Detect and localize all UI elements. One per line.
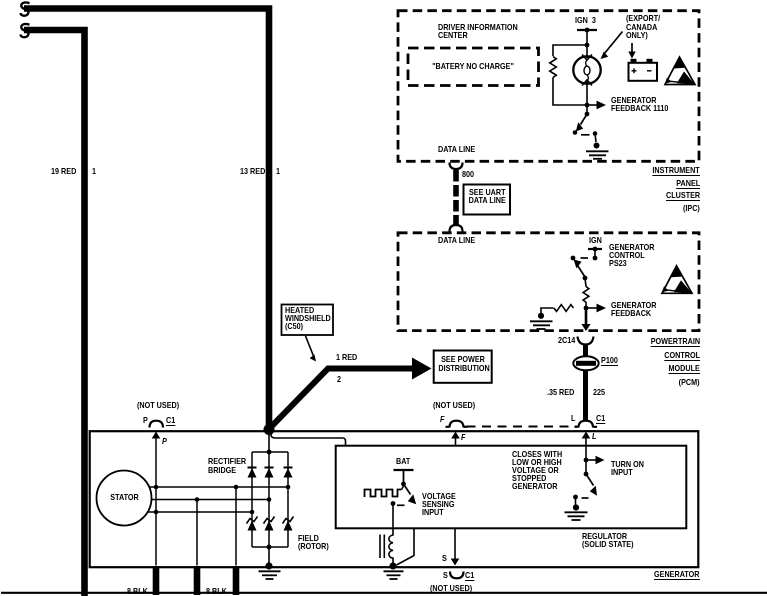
switch blade (regulator L) xyxy=(586,474,594,486)
ground (field) on generator case xyxy=(389,562,396,569)
label stator xyxy=(101,493,148,502)
8 BLK wire (phase A) below generator xyxy=(233,566,240,595)
label see uart data line xyxy=(467,188,507,197)
label 8 BLK (left) xyxy=(127,587,148,596)
wire resistor to ground (PCM) xyxy=(541,308,554,313)
8 BLK wire (phase C) below generator xyxy=(153,566,160,595)
stator phase wire C xyxy=(148,511,252,513)
field (rotor) core bars xyxy=(380,535,384,559)
arrow to GENERATOR FEEDBACK label (PCM) xyxy=(586,307,597,309)
wire contact down to field coil xyxy=(392,504,394,529)
arrowhead to SEE POWER DISTRIBUTION xyxy=(412,358,432,380)
wire junction down to rectifier bridge xyxy=(268,431,270,452)
label batery no charge xyxy=(418,62,529,71)
wire break hook (top wire 2) xyxy=(21,24,30,37)
resistor (lamp shunt) xyxy=(550,57,557,78)
node P tap on phase A xyxy=(154,485,159,490)
see power distribution box xyxy=(434,351,492,383)
diode (bridge negative, leg1) xyxy=(247,517,258,524)
8 BLK wire (phase B) below generator xyxy=(194,566,201,595)
label driver information center xyxy=(438,23,518,32)
field return wire xyxy=(397,528,415,566)
label (not used) F xyxy=(433,401,475,410)
IGN terminal bar (PCM) xyxy=(588,248,602,250)
ESD sensitive symbol (IPC) xyxy=(665,57,695,85)
label data line (IPC) xyxy=(438,145,475,154)
switch node (regulator L) xyxy=(584,472,589,477)
wire resistor to feedback node (PCM) xyxy=(585,302,587,308)
switch dashed link (PCM generator control) xyxy=(581,257,589,259)
arrow to TURN ON INPUT label xyxy=(586,459,596,461)
node on IGN 3 feed xyxy=(585,28,590,33)
node bridge output xyxy=(267,450,272,455)
wire phase A drop to 8 BLK xyxy=(235,487,237,566)
bottom border line xyxy=(1,592,767,594)
connector S C1 cup (not used) xyxy=(450,572,464,579)
label generator feedback 1110 xyxy=(611,96,657,105)
junction node: 13 RED / 2 RED / generator BAT output xyxy=(264,424,275,435)
diode (bridge positive, leg2) xyxy=(265,467,274,469)
label regulator (solid state) xyxy=(582,532,627,541)
stator phase wire A xyxy=(149,486,288,488)
C1 connector dashed interface line F to L xyxy=(467,426,578,428)
ground (bridge) on generator case xyxy=(265,562,272,569)
arrow from ONLY) to battery xyxy=(631,43,633,52)
switch blade (PCM) xyxy=(575,262,585,278)
connector 2C14 xyxy=(578,337,594,345)
node phase B tap xyxy=(195,497,200,502)
connector P C1 hump (not used) xyxy=(150,421,164,428)
label powertrain control module (PCM) xyxy=(651,337,700,346)
label P100 xyxy=(601,356,618,365)
wire break hook (top wire 1) xyxy=(21,2,30,15)
IGN 3 terminal bar xyxy=(577,29,597,31)
dashed link (regulator L switch) xyxy=(582,497,589,499)
instrument panel cluster (IPC) dashed box xyxy=(398,11,699,162)
label BAT xyxy=(396,457,410,466)
label generator feedback (PCM) xyxy=(611,301,657,310)
connector P100 pass-through xyxy=(573,356,598,370)
label 8 BLK (right) xyxy=(206,587,227,596)
label 2C14 xyxy=(558,336,575,345)
L terminal arrow into generator xyxy=(585,433,587,446)
label voltage sensing input xyxy=(422,492,456,501)
label 1 RED circuit 2 xyxy=(336,353,357,362)
F terminal arrow into generator xyxy=(455,433,457,446)
grounded contact xyxy=(593,131,598,136)
arrow to GENERATOR FEEDBACK 1110 label xyxy=(587,104,597,106)
ground stem (regulator) xyxy=(575,497,577,505)
arrow from EXPORT/CANADA label to lamp xyxy=(604,32,623,55)
label L C1 connector xyxy=(571,414,575,423)
label data line (PCM) xyxy=(438,236,475,245)
grounded contact (regulator) xyxy=(573,495,578,500)
label see power distribution xyxy=(438,355,487,364)
data line connector at IPC xyxy=(450,163,463,170)
label generator control PS23 xyxy=(609,243,655,252)
heated windshield (C50) callout box xyxy=(282,305,334,336)
node leg1 phase C xyxy=(250,510,255,515)
resistor (PCM horizontal, to ground) xyxy=(554,305,574,312)
rectifier bridge frame xyxy=(252,452,288,547)
node generator feedback (IPC) xyxy=(585,103,590,108)
indicator lamp BATTERY NO CHARGE xyxy=(573,56,600,83)
node phase C tap xyxy=(154,510,159,515)
label rectifier bridge xyxy=(208,457,246,466)
label heated windshield C50 xyxy=(285,306,314,315)
label 13 RED circuit 1 xyxy=(240,167,265,176)
stator phase wire B xyxy=(152,499,270,501)
stator winding circle xyxy=(97,471,152,526)
label .35 RED 225 xyxy=(547,388,574,397)
field (rotor) coil xyxy=(389,528,393,565)
switch node (IPC driver) xyxy=(585,112,590,117)
wire lamp bottom to feedback node xyxy=(586,80,588,114)
diode (bridge positive, leg3) xyxy=(284,467,293,469)
label 800 xyxy=(462,170,474,179)
switch pivot contact (PCM) xyxy=(571,256,576,261)
ground (IPC) xyxy=(594,143,600,149)
powertrain control module (PCM) dashed box xyxy=(398,233,699,331)
node bridge ground bus xyxy=(267,545,272,550)
wire BAT node to regulator xyxy=(271,432,346,445)
label instrument panel cluster (IPC) xyxy=(653,166,700,175)
switch blade (IPC) xyxy=(581,114,588,125)
BAT terminal bar (regulator) xyxy=(394,469,414,471)
resistor (PCM vertical) xyxy=(583,287,589,303)
data line 800 thick dashed wire xyxy=(453,170,459,226)
battery symbol (EXPORT/CANADA) xyxy=(629,63,658,81)
label S C1 connector (not used) xyxy=(442,554,447,563)
diode (bridge negative, leg2) xyxy=(264,517,275,524)
see uart data line box xyxy=(464,185,511,215)
switch pivot contact xyxy=(573,130,578,135)
label field (rotor) xyxy=(298,534,319,543)
label IGN (PCM) xyxy=(589,236,602,245)
dashed link (voltage sensing) xyxy=(397,504,405,506)
driver information center inner dashed box: BATERY NO CHARGE xyxy=(408,48,539,86)
wire phase B drop to 8 BLK xyxy=(196,500,198,566)
wire IGN to lamp top xyxy=(586,30,588,58)
generator box xyxy=(90,431,699,567)
diode (bridge negative, leg3) xyxy=(283,517,294,524)
label (not used) P C1 xyxy=(137,401,179,410)
ESD sensitive symbol (PCM) xyxy=(662,266,692,294)
switch contact (voltage sensing input) xyxy=(391,501,396,506)
regulator (solid state) box xyxy=(336,446,687,529)
diode (bridge positive, leg1) xyxy=(248,467,257,469)
wire branch to shunt resistor xyxy=(553,45,587,56)
label P terminal inside generator xyxy=(162,437,167,446)
wire 2C14 to P100 (thick) xyxy=(583,344,588,357)
voltage sensing switch blade xyxy=(404,484,411,495)
node phase A tap xyxy=(234,485,239,490)
wire resistor to feedback node xyxy=(553,78,585,106)
S wire regulator to sense terminal xyxy=(454,528,456,560)
label generator xyxy=(654,570,700,579)
label turn on input xyxy=(611,460,644,469)
wire 2 RED diagonal to power distribution xyxy=(267,369,414,432)
arrow from HEATED WINDSHIELD label to 2 RED wire xyxy=(306,336,314,356)
node turn on input xyxy=(584,458,589,463)
ground stem (IPC) xyxy=(595,134,596,143)
wire feedback node down to 2C14 xyxy=(585,308,588,326)
label 19 RED circuit 1 xyxy=(51,167,76,176)
data line connector at PCM xyxy=(450,225,463,232)
wire P to stator phase A xyxy=(155,433,157,566)
connector L C1 hump xyxy=(575,421,598,428)
wire 19 RED: horizontal run and long vertical drop to bottom xyxy=(24,30,85,596)
ground (PCM) xyxy=(538,313,544,319)
connector F C1 hump (not used) xyxy=(446,421,468,428)
ground (regulator) xyxy=(573,504,579,510)
label closes with low or high voltage or stopped generator xyxy=(512,450,562,459)
node leg2 phase B xyxy=(267,497,272,502)
switch dashed link xyxy=(581,134,590,136)
label IGN 3 xyxy=(575,16,596,25)
node leg3 phase A xyxy=(286,485,291,490)
wire bridge to chassis ground xyxy=(268,547,270,564)
label export/canada only xyxy=(626,14,660,23)
L wire into regulator xyxy=(585,446,587,474)
node generator feedback (PCM) xyxy=(584,306,589,311)
node at lamp/resistor branch xyxy=(585,43,590,48)
wire P100 to generator L terminal (.35 RED 225) xyxy=(583,370,588,422)
IGN stem to switch contact xyxy=(594,249,596,256)
P terminal arrow into generator xyxy=(152,432,161,439)
BAT stem xyxy=(403,470,405,483)
wire 1 RED: 13 RED feed, horizontal run and vertical drop xyxy=(24,9,269,430)
voltage sensing waveform xyxy=(365,490,402,498)
wire to resistor (PCM) xyxy=(585,278,586,287)
